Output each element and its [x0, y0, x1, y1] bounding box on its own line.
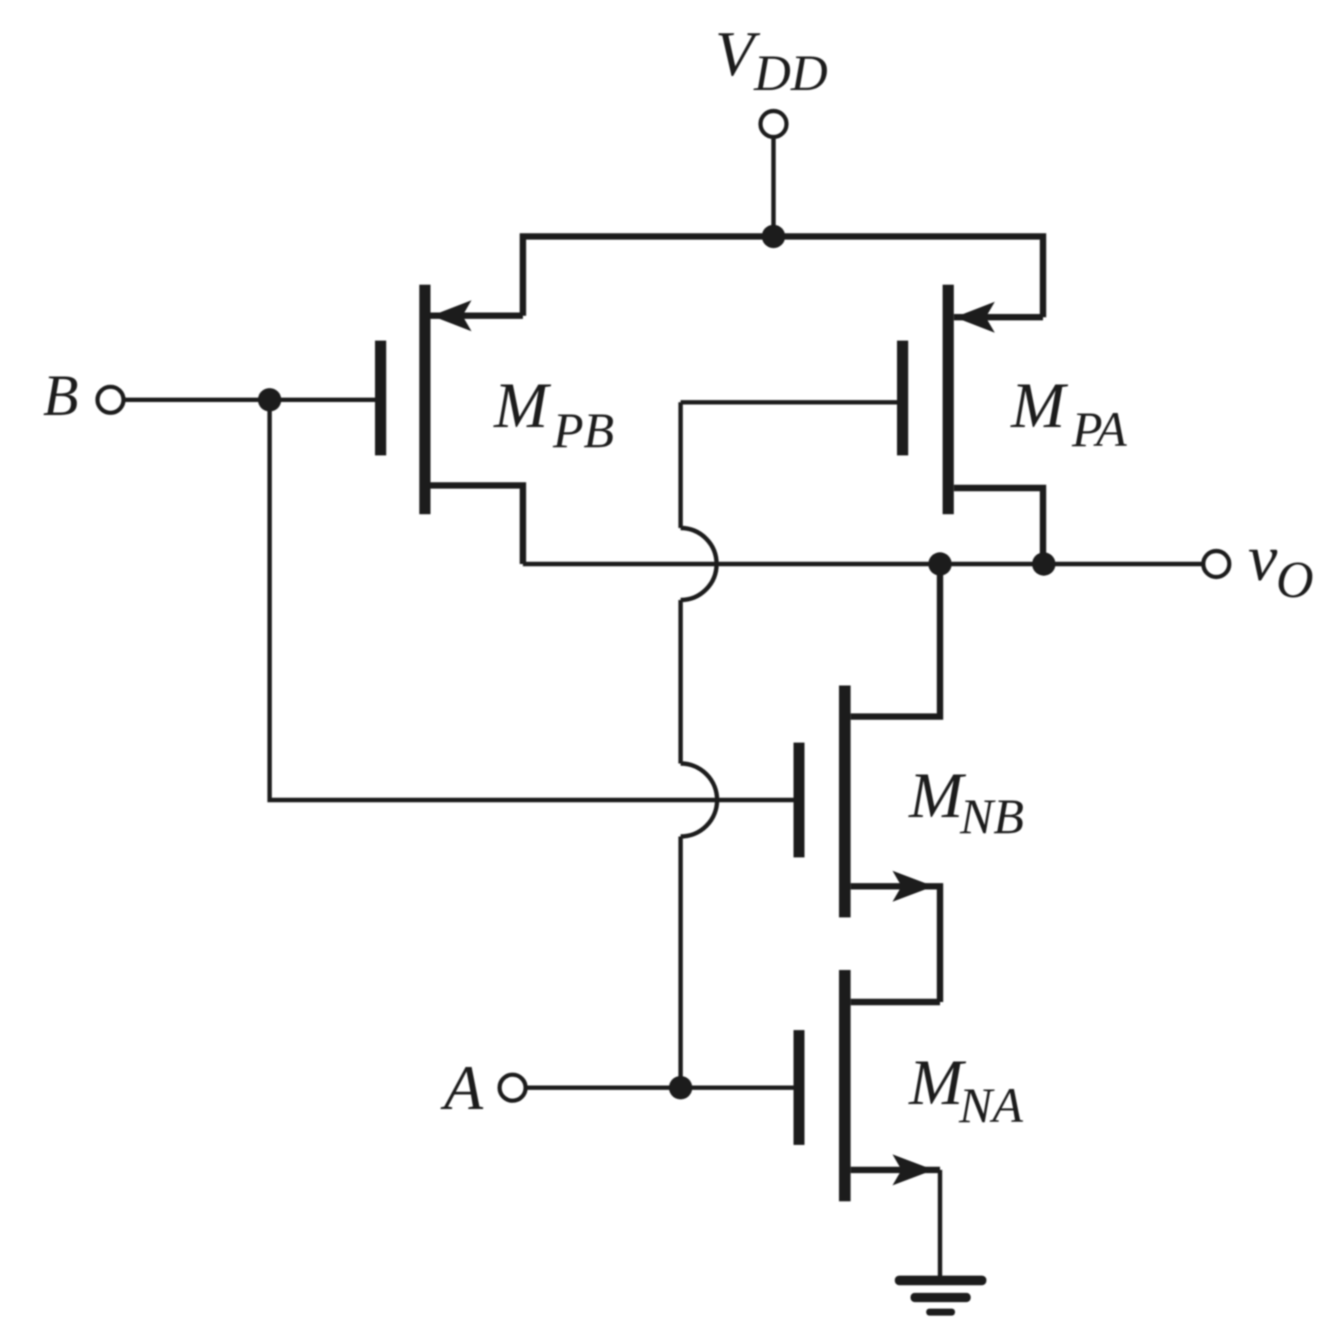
- MPA source arrow (points left): [955, 302, 995, 333]
- MNA source arm: [851, 1167, 940, 1173]
- input terminal B circle: [98, 387, 124, 413]
- junction node output-MPA drain: [1032, 552, 1055, 575]
- svg-text:DD: DD: [753, 46, 828, 102]
- MPA gate bar: [897, 341, 908, 456]
- MPB gate bar: [375, 341, 386, 456]
- svg-text:NA: NA: [958, 1077, 1023, 1133]
- MPA channel bar: [943, 285, 954, 515]
- label MPA: [1010, 370, 1127, 457]
- wire MNA source to ground: [938, 1170, 942, 1277]
- MNB drain arm up to output: [851, 564, 940, 717]
- junction node output-MNB drain: [928, 552, 951, 575]
- output terminal vO circle: [1203, 551, 1229, 577]
- MPB source arrow (points left): [432, 300, 472, 331]
- label MNA: [908, 1047, 1023, 1133]
- MNA gate bar: [794, 1030, 805, 1145]
- junction node B branch: [258, 388, 281, 411]
- power terminal VDD circle: [761, 111, 787, 137]
- hop over B branch wire: [681, 764, 718, 837]
- MNA source arrow (points right): [893, 1154, 934, 1185]
- label VDD: [715, 18, 828, 102]
- wire VDD rail with legs to MPB and MPA sources: [523, 236, 1043, 317]
- svg-text:M: M: [908, 760, 967, 832]
- MPA source arm: [954, 314, 1043, 320]
- svg-text:NB: NB: [959, 788, 1024, 844]
- wire B branch down and right to MNB gate: [270, 400, 794, 800]
- ground symbol: [895, 1276, 987, 1316]
- wire B to MPB gate: [123, 398, 375, 402]
- wire output net: [523, 562, 1204, 566]
- MNA drain arm: [851, 999, 940, 1005]
- MPB drain arm: [431, 485, 523, 564]
- label MPB: [493, 370, 614, 458]
- svg-text:A: A: [440, 1052, 484, 1123]
- MNB channel bar: [839, 686, 851, 918]
- junction node A: [669, 1076, 692, 1099]
- MPA drain arm: [954, 488, 1043, 564]
- label B: [43, 363, 78, 428]
- MNB source arrow (points right): [893, 871, 934, 902]
- svg-text:B: B: [43, 363, 78, 428]
- hop over output wire: [681, 528, 717, 600]
- wire node A vertical with hops: [681, 402, 718, 1087]
- svg-text:M: M: [1010, 370, 1069, 442]
- transistor MPA (PMOS): [897, 285, 1043, 564]
- transistor MPB (PMOS): [375, 285, 523, 564]
- svg-text:v: v: [1248, 522, 1278, 595]
- label A: [440, 1052, 484, 1123]
- input terminal A circle: [500, 1075, 526, 1101]
- transistor MNB (NMOS): [794, 564, 941, 1002]
- MNB gate bar: [794, 743, 805, 858]
- wire VDD lead: [771, 137, 775, 237]
- transistor MNA (NMOS): [794, 970, 941, 1201]
- svg-text:PA: PA: [1071, 401, 1127, 457]
- wire A to MNA gate: [525, 1085, 794, 1089]
- label vO: [1248, 522, 1314, 609]
- MPB channel bar: [419, 285, 430, 515]
- svg-text:M: M: [493, 370, 552, 442]
- svg-text:O: O: [1276, 552, 1314, 609]
- MNB source arm: [851, 886, 940, 1002]
- label MNB: [908, 760, 1024, 844]
- MNA channel bar: [839, 970, 851, 1201]
- svg-text:PB: PB: [552, 402, 614, 458]
- junction VDD node: [762, 225, 785, 248]
- MPB source arm: [431, 313, 523, 319]
- wire MPA gate to node A vertical: [681, 400, 897, 404]
